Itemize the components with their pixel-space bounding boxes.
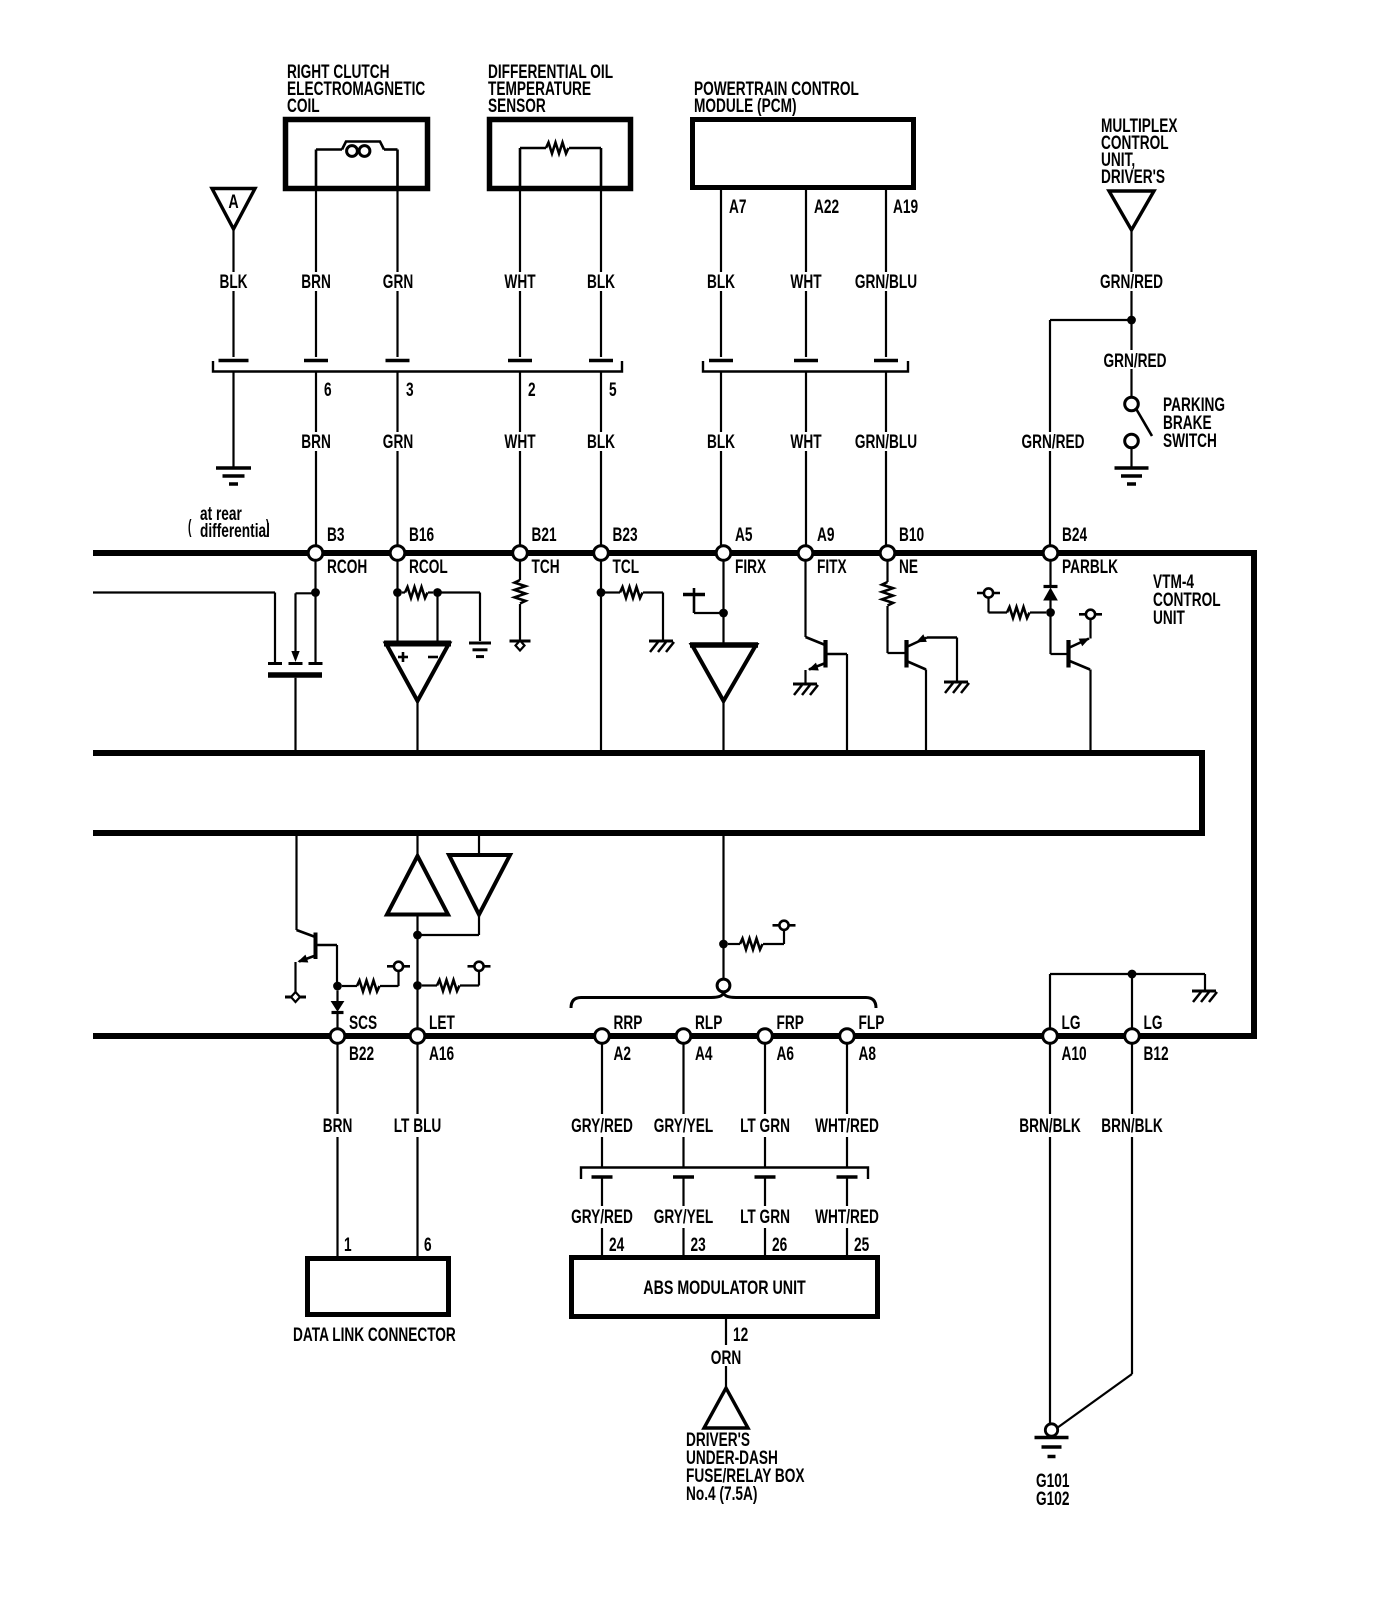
svg-text:12: 12: [733, 1324, 748, 1346]
svg-text:A4: A4: [695, 1043, 713, 1065]
connector terminal tick pin 26: [755, 1175, 776, 1179]
wire buffers to junction (LET): [418, 915, 480, 936]
svg-text:SCS: SCS: [349, 1012, 377, 1034]
svg-text:B23: B23: [613, 524, 638, 546]
svg-text:PARBLK: PARBLK: [1062, 556, 1118, 578]
svg-text:DATA LINK CONNECTOR: DATA LINK CONNECTOR: [293, 1324, 456, 1346]
wire bus to driver pair (LET): [416, 836, 418, 856]
internal terminal (PARBLK emitter): [1079, 610, 1102, 619]
svg-text:WHT/RED: WHT/RED: [815, 1115, 879, 1137]
wire junction to buffer (FIRX): [722, 613, 724, 645]
svg-text:GRN/RED: GRN/RED: [1103, 350, 1166, 372]
svg-text:SWITCH: SWITCH: [1163, 430, 1217, 452]
terminal B24 (PARBLK) on unit top edge: [1043, 524, 1118, 578]
svg-text:differential: differential: [200, 520, 270, 542]
svg-text:LT GRN: LT GRN: [740, 1115, 790, 1137]
svg-text:3: 3: [406, 379, 414, 401]
resistor SCS (horizontal): [342, 981, 399, 992]
label WHT/RED: [815, 1115, 879, 1137]
svg-text:A7: A7: [729, 196, 746, 218]
svg-text:B16: B16: [409, 524, 434, 546]
wire BLK from PCM A7: [720, 188, 722, 357]
pin number 23: [691, 1234, 706, 1256]
svg-text:24: 24: [609, 1234, 625, 1256]
svg-text:RRP: RRP: [614, 1012, 643, 1034]
label WHT (lower): [504, 431, 535, 453]
junction dot LET upper: [413, 931, 422, 940]
svg-text:RLP: RLP: [695, 1012, 722, 1034]
svg-text:LT GRN: LT GRN: [740, 1206, 790, 1228]
wire junction to capacitor middle (diode branch): [296, 593, 316, 651]
wire GRN/BLU from PCM A19: [885, 188, 887, 357]
svg-text:A16: A16: [429, 1043, 454, 1065]
label GRN/RED (multiplex wire): [1100, 271, 1163, 293]
pin number 5: [609, 379, 617, 401]
svg-text:WHT/RED: WHT/RED: [815, 1206, 879, 1228]
svg-text:BRN: BRN: [301, 431, 331, 453]
terminal A9 (FITX) on unit top edge: [798, 524, 846, 578]
terminal B3 (RCOH) on unit top edge: [308, 524, 367, 578]
wire GRN/BLU to terminal B10: [885, 372, 887, 546]
svg-text:A22: A22: [814, 196, 839, 218]
svg-text:A5: A5: [735, 524, 752, 546]
in-line connector bracket (PCM group): [703, 361, 908, 372]
wire WHT/RED terminal to ABS connector: [846, 1043, 848, 1167]
svg-text:WHT: WHT: [504, 431, 535, 453]
internal terminal (SCS pull-up): [387, 962, 410, 971]
chassis ground (LG rail): [1192, 991, 1217, 1002]
svg-text:A19: A19: [893, 196, 918, 218]
wire BLK from connector A: [232, 229, 234, 357]
junction dot RCOH: [311, 588, 320, 597]
wire junction to capacitor right plate: [314, 593, 316, 663]
wire B10 terminal to resistor: [886, 560, 888, 582]
terminal A10 (LG) on unit bottom edge: [1043, 1012, 1087, 1065]
resistor TCH (vertical): [515, 580, 526, 603]
terminal A6 (FRP) on unit bottom edge: [758, 1012, 804, 1065]
ground (op-amp reference): [469, 643, 491, 657]
label WHT (PCM A22 wire): [790, 271, 821, 293]
label WHT (PCM lower): [790, 431, 821, 453]
svg-text:B22: B22: [349, 1043, 374, 1065]
wire resistor up to internal terminal (SCS): [397, 971, 399, 986]
wire resistor to terminator: [519, 604, 521, 640]
svg-text:GRY/YEL: GRY/YEL: [654, 1115, 714, 1137]
wire WHT sensor pin to connector pin 2: [519, 191, 521, 357]
wire Q3 collector to bus: [1089, 670, 1091, 751]
wire WHT from PCM A22: [805, 188, 807, 357]
label (at rear differential): [188, 503, 270, 542]
junction dot TCL: [597, 588, 606, 597]
svg-text:1: 1: [344, 1234, 352, 1256]
label BRN: [301, 271, 331, 293]
svg-text:NE: NE: [899, 556, 918, 578]
label LT GRN: [740, 1115, 790, 1137]
svg-text:GRN: GRN: [383, 271, 413, 293]
terminal A8 (FLP) on unit bottom edge: [840, 1012, 885, 1065]
svg-text:RCOH: RCOH: [327, 556, 367, 578]
diode arrow (RCOH driver): [291, 651, 299, 662]
label GRN/RED (B24 wire): [1021, 431, 1084, 453]
wire GRN/RED junction to parking brake switch: [1130, 317, 1132, 398]
connector terminal tick (GRN/BLU): [874, 359, 898, 363]
wire BLK to terminal A5: [720, 372, 722, 546]
wire GRN/RED branch to terminal B24: [1050, 320, 1132, 546]
label BLK (connector A wire): [219, 271, 247, 293]
svg-text:BLK: BLK: [587, 431, 615, 453]
resistor LET (horizontal): [422, 980, 479, 991]
svg-text:A: A: [228, 191, 238, 212]
wire GRN/RED from multiplex connector: [1130, 230, 1132, 317]
transistor Q1 (FITX driver): [806, 637, 848, 674]
pin number 3: [406, 379, 414, 401]
junction dot PARBLK: [1046, 608, 1055, 617]
wire Q4 emitter to terminator: [294, 962, 296, 993]
svg-text:5: 5: [609, 379, 617, 401]
svg-text:WHT: WHT: [504, 271, 535, 293]
junction dot wheel speed common: [719, 940, 728, 949]
svg-text:GRN/RED: GRN/RED: [1021, 431, 1084, 453]
wire LG internal rail: [1050, 974, 1205, 1029]
label: POWERTRAIN CONTROL MODULE (PCM): [694, 78, 859, 117]
svg-text:FLP: FLP: [859, 1012, 885, 1034]
svg-text:FRP: FRP: [777, 1012, 804, 1034]
label GRY/RED (lower): [571, 1206, 633, 1228]
data link connector (component box): [308, 1259, 449, 1315]
wire B3 terminal to junction: [314, 560, 316, 593]
wire NE bottom to bus: [925, 670, 927, 751]
label BRN/BLK (B12 wire): [1101, 1115, 1163, 1137]
svg-text:GRN/BLU: GRN/BLU: [855, 431, 917, 453]
svg-text:B21: B21: [532, 524, 557, 546]
label: MULTIPLEX CONTROL UNIT DRIVER'S: [1101, 115, 1177, 188]
svg-text:GRN/RED: GRN/RED: [1100, 271, 1163, 293]
svg-text:25: 25: [854, 1234, 869, 1256]
wire buffer output to bus: [722, 701, 724, 751]
label ABS MODULATOR UNIT: [643, 1277, 806, 1298]
wire BRN/BLK terminal A10 to ground: [1049, 1043, 1051, 1423]
wire B24 terminal to diode (PARBLK): [1049, 560, 1051, 587]
svg-text:A8: A8: [859, 1043, 876, 1065]
wire junction to terminal A16: [416, 986, 418, 1030]
transistor Q4 (SCS driver): [296, 930, 337, 966]
wire BRN coil pin to connector pin 6: [315, 191, 317, 357]
svg-text:23: 23: [691, 1234, 706, 1256]
terminal B12 (LG) on unit bottom edge: [1125, 1012, 1169, 1065]
wire junction to distribution node: [722, 944, 724, 979]
junction dot FIRX: [719, 609, 728, 618]
wire B23 terminal to junction: [600, 560, 602, 593]
wire LT GRN to ABS modulator pin 26: [764, 1177, 766, 1256]
connector terminal tick (A wire): [219, 359, 249, 363]
terminal A2 (RRP) on unit bottom edge: [595, 1012, 643, 1065]
svg-text:WHT: WHT: [790, 271, 821, 293]
svg-text:GRY/YEL: GRY/YEL: [654, 1206, 714, 1228]
terminal B10 (NE) on unit top edge: [880, 524, 924, 578]
label VTM-4 CONTROL UNIT: [1153, 571, 1221, 629]
wire junction to lower junction (LET): [416, 935, 418, 986]
svg-text:ABS MODULATOR UNIT: ABS MODULATOR UNIT: [643, 1277, 806, 1298]
label WHT: [504, 271, 535, 293]
terminal A5 (FIRX) on unit top edge: [716, 524, 766, 578]
label BLK (PCM lower): [707, 431, 735, 453]
label G101 G102: [1036, 1470, 1069, 1510]
connector terminal tick pin 25: [837, 1175, 858, 1179]
ABS modulator unit (component box): [572, 1258, 878, 1317]
svg-text:BLK: BLK: [219, 271, 247, 293]
ground at rear differential: [216, 468, 251, 484]
wire WHT/RED to ABS modulator pin 25: [846, 1177, 848, 1256]
op-amp U1 (comparator RCOL): [384, 644, 451, 702]
label BRN/BLK (A10 wire): [1019, 1115, 1081, 1137]
svg-text:A10: A10: [1062, 1043, 1087, 1065]
wire terminal to resistor (PARBLK): [989, 598, 1008, 613]
wire Q3 emitter to internal terminal: [1089, 619, 1091, 639]
svg-text:LG: LG: [1062, 1012, 1081, 1034]
wire WHT to terminal B21: [519, 372, 521, 546]
transistor Q2 (NE input): [907, 634, 958, 669]
pin label A19: [893, 196, 918, 218]
connector terminal tick (BLK): [709, 359, 733, 363]
svg-text:UNIT: UNIT: [1153, 607, 1185, 629]
svg-text:LT BLU: LT BLU: [394, 1115, 442, 1137]
buffer amplifier (FIRX receive): [690, 645, 758, 701]
svg-text:TCL: TCL: [613, 556, 640, 578]
junction dot GRN/RED: [1127, 316, 1136, 325]
label PARKING BRAKE SWITCH: [1163, 394, 1225, 452]
label LT BLU: [394, 1115, 442, 1137]
wire A9 terminal down (FITX): [804, 560, 806, 637]
junction dot LG rail: [1128, 970, 1137, 979]
svg-text:DRIVER'S: DRIVER'S: [1101, 166, 1165, 188]
pin number 2: [528, 379, 536, 401]
wire TCL to bus: [600, 593, 602, 751]
svg-text:LET: LET: [429, 1012, 455, 1034]
svg-text:G102: G102: [1036, 1488, 1069, 1510]
label GRN/RED (middle): [1103, 350, 1166, 372]
chassis ground (FITX emitter): [793, 684, 818, 695]
terminal A16 (LET) on unit bottom edge: [410, 1012, 455, 1065]
label GRN/BLU: [855, 271, 917, 293]
svg-text:6: 6: [424, 1234, 432, 1256]
junction dot RCOL left: [393, 588, 402, 597]
label WHT/RED (lower): [815, 1206, 879, 1228]
wire BLK to terminal B23: [600, 372, 602, 546]
svg-text:FITX: FITX: [817, 556, 847, 578]
resistor wheel speed (horizontal): [728, 939, 784, 950]
resistor PARBLK (horizontal): [1007, 607, 1046, 618]
wire GRY/YEL terminal to ABS connector: [682, 1043, 684, 1167]
terminal A4 (RLP) on unit bottom edge: [676, 1012, 722, 1065]
wire LT GRN terminal to ABS connector: [764, 1043, 766, 1167]
buffer amplifier (LET drive, pointing up): [387, 856, 448, 915]
svg-text:COIL: COIL: [287, 95, 320, 117]
connector triangle to fuse relay box: [704, 1388, 748, 1428]
ground (parking brake switch): [1115, 468, 1149, 484]
terminal B16 (RCOL) on unit top edge: [390, 524, 448, 578]
svg-text:A6: A6: [777, 1043, 794, 1065]
wire BRN/BLK terminal B12 to ground: [1057, 1043, 1132, 1428]
connector terminal tick (WHT): [794, 359, 818, 363]
svg-text:26: 26: [772, 1234, 787, 1256]
terminator (TCH): [510, 641, 531, 651]
svg-text:B10: B10: [899, 524, 924, 546]
wire parking brake switch to ground: [1130, 448, 1132, 467]
svg-text:(: (: [188, 517, 192, 538]
wire diode to terminal B22: [336, 1013, 338, 1030]
svg-text:SENSOR: SENSOR: [488, 95, 546, 117]
wire GRY/RED terminal to ABS connector: [601, 1043, 603, 1167]
wire FITX emitter to chassis ground: [804, 670, 806, 683]
wire GRN to terminal B16: [396, 372, 398, 546]
svg-text:GRN/BLU: GRN/BLU: [855, 271, 917, 293]
wire WHT to terminal A9: [805, 372, 807, 546]
in-line connector bracket (ABS group): [581, 1168, 868, 1180]
pin number 1 (data link connector): [344, 1234, 352, 1256]
differential oil temperature sensor (component box with resistor symbol): [490, 120, 631, 192]
label GRY/YEL (lower): [654, 1206, 714, 1228]
connector terminal tick pin 3: [386, 359, 410, 363]
svg-text:BLK: BLK: [587, 271, 615, 293]
svg-text:2: 2: [528, 379, 536, 401]
svg-text:FIRX: FIRX: [735, 556, 766, 578]
pin number 6 (data link connector): [424, 1234, 432, 1256]
wire to ground at rear differential: [232, 372, 234, 467]
connector terminal tick pin 5: [589, 359, 613, 363]
svg-text:B3: B3: [327, 524, 344, 546]
resistor NE (vertical): [882, 582, 893, 605]
connector terminal tick pin 2: [508, 359, 532, 363]
svg-text:BRN: BRN: [301, 271, 331, 293]
svg-text:No.4 (7.5A): No.4 (7.5A): [686, 1483, 757, 1505]
pin number 24: [609, 1234, 625, 1256]
svg-text:BRN: BRN: [323, 1115, 353, 1137]
wire op-amp output to bus: [416, 701, 418, 751]
powertrain control module PCM (component box): [693, 120, 914, 188]
junction dot RCOL right: [433, 588, 442, 597]
in-line connector bracket (left group): [213, 361, 622, 372]
svg-text:A9: A9: [817, 524, 834, 546]
wire FITX collector to bus: [846, 654, 848, 751]
label LT GRN (lower): [740, 1206, 790, 1228]
svg-text:GRY/RED: GRY/RED: [571, 1206, 633, 1228]
junction dot LET lower: [413, 981, 422, 990]
label BRN (lower): [301, 431, 331, 453]
label BRN (B22 wire): [323, 1115, 353, 1137]
terminator (SCS emitter): [285, 992, 306, 1002]
wire resistor up to internal terminal (LET): [478, 971, 480, 986]
wire internal rail to capacitor left plate: [93, 593, 275, 663]
wire resistor to chassis ground (TCL): [646, 593, 663, 641]
wire resistor to transistor base (NE): [888, 606, 906, 653]
wire capacitor to bus: [294, 678, 296, 751]
label: RIGHT CLUTCH ELECTROMAGNETIC COIL: [287, 61, 425, 117]
terminal B23 (TCL) on unit top edge: [594, 524, 639, 578]
wire bus to inverting buffer (LET): [478, 836, 480, 855]
VTM-4 control unit border (top line, right border, bottom line): [93, 553, 1254, 1036]
label DATA LINK CONNECTOR: [293, 1324, 456, 1346]
svg-text:B24: B24: [1062, 524, 1088, 546]
resistor TCL (horizontal): [605, 587, 646, 598]
internal terminal (LET pull-up): [468, 962, 491, 971]
label: DIFFERENTIAL OIL TEMPERATURE SENSOR: [488, 61, 613, 117]
distribution node (open circle): [717, 979, 730, 992]
svg-text:GRY/RED: GRY/RED: [571, 1115, 633, 1137]
label ORN: [711, 1347, 741, 1369]
diode D2 (PARBLK, cathode up): [1044, 587, 1058, 601]
capacitor plates (RCOH driver): [268, 664, 323, 676]
diode D3 (SCS, cathode down): [332, 1002, 344, 1013]
buffer amplifier (LET receive, pointing down): [449, 855, 510, 915]
svg-text:BLK: BLK: [707, 271, 735, 293]
svg-text:MODULE (PCM): MODULE (PCM): [694, 95, 797, 117]
wire Q4 collector down to junction: [336, 945, 338, 982]
wire ORN from ABS modulator pin 12: [725, 1316, 727, 1388]
junction dot SCS: [333, 982, 342, 991]
wire BLK sensor pin to connector pin 5: [600, 191, 602, 357]
wire op-amp non-inverting input: [396, 593, 398, 642]
svg-text:WHT: WHT: [790, 431, 821, 453]
chassis ground (NE): [944, 682, 969, 693]
parking brake switch: [1125, 397, 1152, 448]
wire BRN terminal B22 to data link connector: [336, 1043, 338, 1256]
stub terminal tap (FIRX): [683, 588, 724, 613]
svg-text:GRN: GRN: [383, 431, 413, 453]
wire junction to transistor base (PARBLK): [1051, 613, 1068, 655]
wire B21 terminal to resistor: [519, 560, 521, 580]
wire GRY/RED to ABS modulator pin 24: [601, 1177, 603, 1256]
svg-text:LG: LG: [1144, 1012, 1163, 1034]
pin number 6: [324, 379, 332, 401]
label GRY/RED: [571, 1115, 633, 1137]
resistor RCOL (horizontal): [402, 587, 433, 598]
svg-text:A2: A2: [614, 1043, 631, 1065]
chassis ground (TCL): [649, 641, 674, 652]
connector terminal tick pin 23: [673, 1175, 694, 1179]
pin number 26: [772, 1234, 787, 1256]
label DRIVER'S UNDER-DASH FUSE/RELAY BOX No.4 (7.5A): [686, 1429, 805, 1505]
label GRN (lower): [383, 431, 413, 453]
label GRY/YEL: [654, 1115, 714, 1137]
distribution brace over RRP RLP FRP FLP: [571, 992, 876, 1008]
svg-text:TCH: TCH: [532, 556, 560, 578]
internal bus bar (hollow rectangle): [93, 753, 1202, 833]
wire junction to diode: [336, 991, 338, 1002]
wire op-amp inverting input: [436, 593, 438, 642]
wire GRY/YEL to ABS modulator pin 23: [682, 1177, 684, 1256]
label BLK (PCM A7 wire): [707, 271, 735, 293]
connector terminal tick pin 24: [592, 1175, 613, 1179]
wire NE top to chassis ground: [956, 638, 958, 682]
terminal B21 (TCH) on unit top edge: [513, 524, 560, 578]
pin number 12: [733, 1324, 748, 1346]
pin label A22: [814, 196, 839, 218]
svg-text:B12: B12: [1144, 1043, 1169, 1065]
wire bus down to junction (wheel speed common): [722, 836, 724, 945]
svg-text:6: 6: [324, 379, 332, 401]
terminal B22 (SCS) on unit bottom edge: [330, 1012, 377, 1065]
wire A5 terminal to junction: [722, 560, 724, 613]
ground G101 G102: [1035, 1424, 1069, 1457]
wire GRN coil pin to connector pin 3: [396, 191, 398, 357]
wire diode to junction (PARBLK): [1049, 600, 1051, 613]
connector A (triangle) at rear differential harness: [212, 189, 255, 230]
pin number 25: [854, 1234, 869, 1256]
wire resistor up to internal terminal: [783, 930, 785, 944]
svg-text:BLK: BLK: [707, 431, 735, 453]
label GRN: [383, 271, 413, 293]
connector triangle to multiplex control unit: [1109, 191, 1154, 230]
